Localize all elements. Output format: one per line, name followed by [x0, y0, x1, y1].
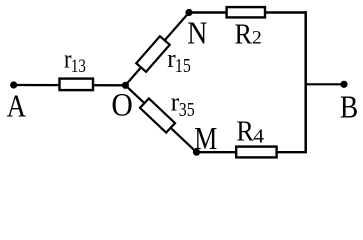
wire bottom M to bottom-right corner: [197, 151, 307, 153]
wire diagonal O to N: [125, 13, 189, 86]
resistor R4: [236, 147, 276, 158]
label r15: [167, 44, 176, 73]
label R2: [235, 18, 253, 49]
svg-text:R: R: [235, 18, 253, 49]
wire diagonal O to M: [125, 85, 196, 152]
label M: [194, 121, 217, 156]
node A terminal dot: [10, 81, 17, 88]
wire stub to B: [306, 83, 344, 85]
svg-text:2: 2: [252, 28, 262, 49]
node B terminal dot: [340, 81, 347, 88]
wire A to O: [14, 84, 126, 87]
resistor r35: [140, 98, 175, 132]
resistor r13: [60, 79, 94, 91]
label r13: [64, 45, 72, 74]
label N: [187, 16, 207, 51]
svg-text:35: 35: [179, 98, 195, 120]
svg-text:4: 4: [253, 124, 264, 147]
svg-text:O: O: [111, 86, 132, 123]
svg-text:B: B: [340, 90, 358, 125]
svg-text:R: R: [236, 114, 254, 147]
label O: [111, 86, 132, 123]
svg-text:15: 15: [175, 54, 191, 76]
svg-text:N: N: [187, 16, 207, 51]
node M junction dot: [193, 149, 200, 156]
label B: [340, 90, 358, 125]
label A: [7, 90, 27, 125]
wire N to top-right corner: [189, 11, 307, 13]
wire right vertical: [304, 11, 307, 153]
label R4: [236, 114, 254, 147]
resistor r15: [136, 36, 169, 72]
resistor R2: [227, 7, 265, 17]
svg-text:A: A: [7, 90, 27, 125]
svg-text:M: M: [194, 121, 217, 156]
svg-text:13: 13: [71, 55, 86, 76]
node N junction dot: [185, 9, 192, 16]
node O junction dot: [122, 82, 129, 89]
label r35: [171, 87, 180, 116]
